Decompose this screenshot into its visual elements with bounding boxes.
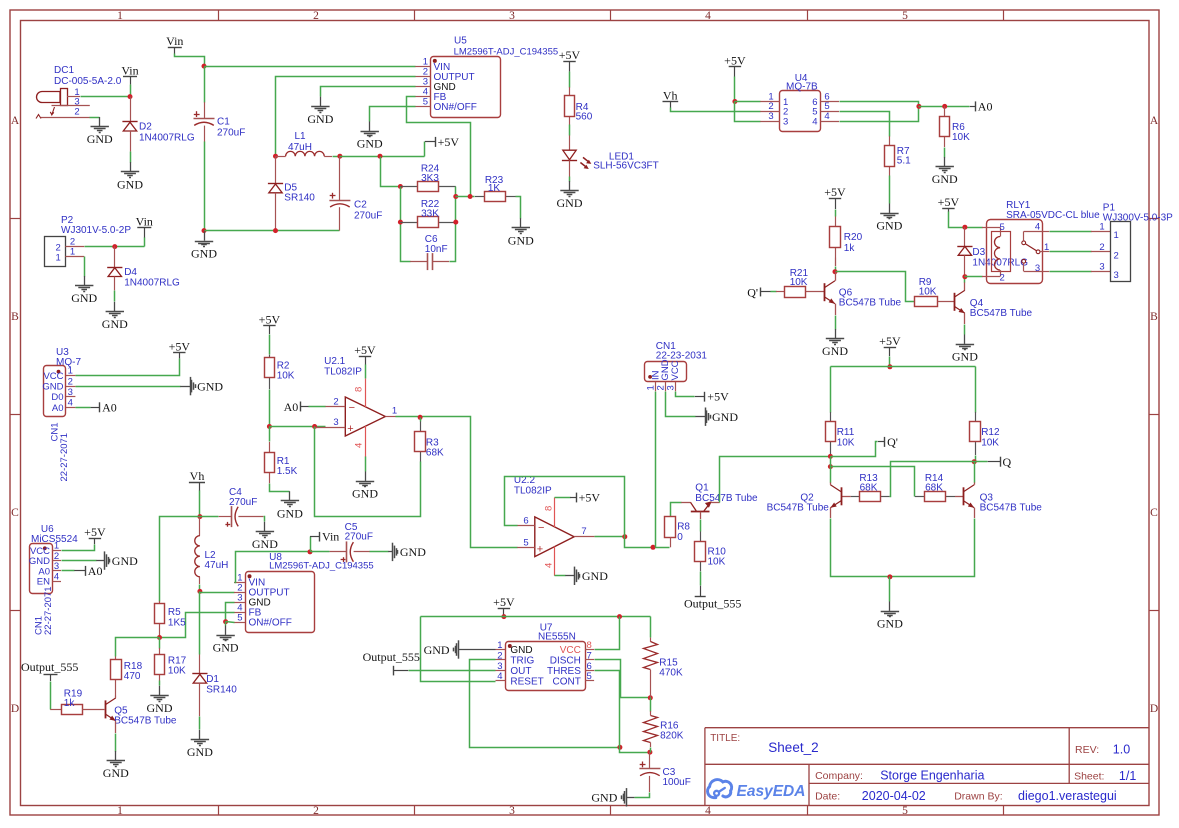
wire U2.2 feedback loop <box>505 477 625 537</box>
junction +5V U7 <box>501 614 506 619</box>
wire TRIG node to C3 node <box>620 748 650 753</box>
wire U5 pin4 FB down to R23 node <box>407 97 471 197</box>
diode D1 <box>199 655 201 674</box>
wire U8 pin3 GND <box>226 603 235 622</box>
junction L2 bottom <box>197 589 202 594</box>
svg-text:2: 2 <box>1114 250 1119 261</box>
ground flag at U2.2 pin4 <box>555 575 566 577</box>
connector P1 <box>1111 222 1131 282</box>
svg-text:CONT: CONT <box>553 676 581 687</box>
wire U4 pin5 to R7 <box>840 112 890 137</box>
net flag A0 at U3 <box>91 407 100 409</box>
power flag +5V at U4 <box>729 66 741 68</box>
wire U4 pin3 to +5V <box>735 102 761 122</box>
svg-text:A: A <box>1150 115 1159 127</box>
svg-text:Sheet_2: Sheet_2 <box>768 740 818 755</box>
svg-text:10K: 10K <box>952 132 970 143</box>
svg-text:3: 3 <box>1035 263 1040 274</box>
svg-text:GND: GND <box>102 317 128 331</box>
resistor R4 <box>569 72 571 88</box>
svg-text:+5V: +5V <box>354 343 376 357</box>
resistor R20 <box>835 210 837 217</box>
svg-text:+5V: +5V <box>438 135 460 149</box>
power flag +5V above R20 <box>829 198 841 200</box>
junction D3 bottom <box>962 274 967 279</box>
wire R6 to ground <box>944 148 946 158</box>
inductor L1 <box>276 156 286 158</box>
svg-text:GND: GND <box>87 132 113 146</box>
svg-text:GND: GND <box>187 745 213 759</box>
svg-text:SLH-56VC3FT: SLH-56VC3FT <box>593 160 659 171</box>
svg-text:10K: 10K <box>981 438 999 449</box>
IC U7 NE555N <box>506 642 586 691</box>
junction D5 bottom <box>273 228 278 233</box>
wire LED1 to ground <box>569 177 571 182</box>
svg-text:68K: 68K <box>860 483 878 494</box>
inductor L2 <box>199 517 201 536</box>
ground at C4 <box>264 522 266 531</box>
wire Q5 collector to R18 <box>115 696 117 698</box>
svg-text:3: 3 <box>333 417 338 428</box>
svg-text:GND: GND <box>952 350 978 364</box>
svg-text:1: 1 <box>497 640 502 651</box>
wire +5V to relay pin5 <box>949 212 983 228</box>
wire CN1 pin3 to +5V <box>676 392 695 397</box>
wire Q' to R21 <box>771 291 777 293</box>
wire A0 node to flag <box>919 106 970 108</box>
svg-text:5: 5 <box>237 613 242 624</box>
svg-text:D3: D3 <box>972 247 985 258</box>
svg-text:WJ300V-5.0-3P: WJ300V-5.0-3P <box>1103 213 1173 224</box>
svg-text:3: 3 <box>68 387 73 398</box>
svg-text:4: 4 <box>824 111 829 122</box>
svg-text:C: C <box>11 507 19 519</box>
resistor R5 <box>159 601 161 603</box>
wire U5 pin5 ON/OFF to ground <box>370 107 416 122</box>
junction R24 left <box>398 184 403 189</box>
svg-text:A0: A0 <box>52 403 64 414</box>
ground flag at U3 pin2 <box>180 386 190 388</box>
led LED1 <box>569 135 571 150</box>
svg-text:TITLE:: TITLE: <box>710 733 740 744</box>
svg-text:R8: R8 <box>677 522 690 533</box>
svg-text:+5V: +5V <box>824 185 846 199</box>
IC U6 MiCS5524 <box>30 544 53 594</box>
svg-text:1: 1 <box>1114 230 1119 241</box>
svg-text:LM2596T-ADJ_C194355: LM2596T-ADJ_C194355 <box>454 47 559 58</box>
svg-text:47uH: 47uH <box>288 142 312 153</box>
transistor Q1 rotated <box>691 511 710 513</box>
svg-text:U2.1: U2.1 <box>324 356 346 367</box>
ground at U5 pin5 <box>369 122 371 131</box>
svg-text:270uF: 270uF <box>345 532 373 543</box>
wire R1 to ground <box>270 484 290 492</box>
junction R23 branch <box>453 194 458 199</box>
svg-text:GND: GND <box>591 791 617 805</box>
wire A0 to pin2 <box>309 406 326 408</box>
svg-text:Vin: Vin <box>136 215 153 229</box>
junction bottom rail gnd <box>887 574 892 579</box>
svg-text:A0: A0 <box>88 564 103 578</box>
svg-text:4: 4 <box>497 671 502 682</box>
net flag A0 top right <box>970 106 976 108</box>
wire P2 pin1 to ground <box>84 257 86 277</box>
svg-text:2: 2 <box>1000 273 1005 284</box>
svg-text:8: 8 <box>544 506 555 511</box>
net flag Vin at DC1 <box>123 76 137 78</box>
svg-text:L1: L1 <box>294 131 306 142</box>
svg-text:Q1: Q1 <box>695 483 709 494</box>
svg-text:Company:: Company: <box>815 770 863 782</box>
svg-text:1N4007RLG: 1N4007RLG <box>139 133 195 144</box>
wire Q2 node to R14 <box>831 467 915 497</box>
svg-text:VCC: VCC <box>560 645 581 656</box>
svg-text:GND: GND <box>400 545 426 559</box>
wire U2.1 output to R3 and U2.2 <box>396 417 518 548</box>
wire TRIG pin2 loop <box>470 660 620 748</box>
ground flag at U6 pin2 <box>96 560 105 562</box>
svg-text:RESET: RESET <box>510 676 543 687</box>
svg-text:WJ301V-5.0-2P: WJ301V-5.0-2P <box>61 225 131 236</box>
pin 1 of U2.1 <box>385 416 396 418</box>
junction FB vertical <box>468 194 473 199</box>
diode D4 <box>114 247 116 268</box>
pin 2 of P2 <box>65 246 84 248</box>
svg-text:2: 2 <box>313 805 319 817</box>
net flag Vin at P2 <box>137 227 151 229</box>
svg-text:ON#/OFF: ON#/OFF <box>434 102 477 113</box>
svg-text:NE555N: NE555N <box>538 632 576 643</box>
svg-text:R5: R5 <box>168 607 181 618</box>
junction FB node R5 <box>157 635 162 640</box>
ground flag at U7 pin1 <box>459 649 496 651</box>
bottom rail wire <box>205 230 340 232</box>
wire U8 pin1 VIN riser <box>235 552 311 583</box>
wire Q node to R13 <box>890 462 975 497</box>
junction U4 pin1 <box>732 99 737 104</box>
junction Q6 collector <box>833 269 838 274</box>
resistor R15 zigzag <box>650 617 652 638</box>
svg-text:5: 5 <box>423 97 428 108</box>
svg-text:8: 8 <box>354 387 365 392</box>
wire C4 to ground <box>264 517 265 522</box>
junction R3 top <box>418 415 423 420</box>
svg-text:D: D <box>1150 703 1158 715</box>
svg-text:Output_555: Output_555 <box>21 660 78 674</box>
ground below R17 <box>159 686 161 695</box>
svg-text:+5V: +5V <box>938 195 960 209</box>
wire U5 pin2 OUTPUT to L1 <box>276 77 416 157</box>
svg-text:GND: GND <box>352 487 378 501</box>
wire +5V to U4 pin1 <box>734 77 736 102</box>
wire C3 to ground flag <box>635 793 650 798</box>
wire R3 bottom loop to +input <box>315 427 421 517</box>
svg-text:Q: Q <box>1003 455 1012 469</box>
svg-text:C: C <box>1150 507 1158 519</box>
svg-text:1N4007RLG: 1N4007RLG <box>124 278 180 289</box>
svg-text:2: 2 <box>313 10 319 22</box>
wire rail to R12 <box>975 367 977 413</box>
wire R20 to Q6 collector <box>835 258 837 267</box>
svg-text:GND: GND <box>197 379 223 393</box>
capacitor C5 <box>311 551 330 553</box>
svg-text:1: 1 <box>68 366 73 377</box>
pin 4 of U2.2 <box>554 547 556 576</box>
wire Vin rail to U5 pin1 <box>205 66 416 68</box>
svg-text:2: 2 <box>333 397 338 408</box>
svg-text:820K: 820K <box>660 730 684 741</box>
ground below flip-flop <box>889 602 891 611</box>
svg-text:4: 4 <box>1035 222 1040 233</box>
wire U4 pin4 to A0 node <box>840 107 919 122</box>
junction U2.2 output <box>622 534 627 539</box>
power flag +5V at U7 <box>498 608 510 610</box>
wire U8 pin2 OUTPUT <box>200 592 235 593</box>
svg-text:+5V: +5V <box>879 334 901 348</box>
svg-text:4: 4 <box>705 10 711 22</box>
svg-text:DC1: DC1 <box>54 65 74 76</box>
svg-text:BC547B Tube: BC547B Tube <box>970 308 1033 319</box>
svg-text:1k: 1k <box>844 243 856 254</box>
junction D5 top <box>273 154 278 159</box>
wire R12 bottom <box>975 456 977 462</box>
junction R11 bottom Q' node <box>828 454 833 459</box>
svg-text:3: 3 <box>666 385 677 390</box>
junction Q node <box>972 459 977 464</box>
svg-text:LM2596T-ADJ_C194355: LM2596T-ADJ_C194355 <box>269 560 374 571</box>
svg-text:C2: C2 <box>354 200 367 211</box>
wire Q1 base down to R10 <box>700 512 702 519</box>
svg-text:Storge Engenharia: Storge Engenharia <box>880 768 984 782</box>
wire CN1 pin1 down to output net <box>655 392 657 548</box>
svg-text:3: 3 <box>1114 270 1119 281</box>
pin 8 of U2.2 <box>554 498 556 528</box>
wire R23 node <box>456 196 475 198</box>
ground below Q6 <box>835 329 837 338</box>
svg-text:GND: GND <box>582 569 608 583</box>
wire U3 pin2 to GND flag <box>76 386 181 388</box>
wire Vin flag to C1 node <box>175 54 205 67</box>
svg-text:BC547B Tube: BC547B Tube <box>980 503 1043 514</box>
wire THRES pin6 <box>595 671 620 748</box>
svg-text:2020-04-02: 2020-04-02 <box>862 789 926 803</box>
resistor R10 <box>700 532 702 542</box>
svg-text:10K: 10K <box>277 371 295 382</box>
svg-text:SRA-05VDC-CL blue: SRA-05VDC-CL blue <box>1006 210 1100 221</box>
svg-text:R12: R12 <box>981 427 1000 438</box>
svg-text:+: + <box>537 543 543 555</box>
IC U4 MQ-7B <box>780 91 821 132</box>
wire Vh node to R5 riser <box>160 517 200 602</box>
power flag +5V flip-flop <box>884 347 896 349</box>
junction R16/C3 <box>647 750 652 755</box>
wire Output_555 to R19 <box>50 682 52 710</box>
IC U3 MQ-7 <box>44 366 66 417</box>
svg-text:6: 6 <box>523 515 528 526</box>
wire Vh to junction <box>199 491 201 517</box>
svg-text:−: − <box>349 402 355 414</box>
svg-text:GND: GND <box>112 554 138 568</box>
ground at P2 pin1 <box>84 276 86 285</box>
svg-text:Vh: Vh <box>663 88 678 102</box>
junction CN1 pin1 wire <box>651 545 656 550</box>
wire U4 pin6 to A0 node <box>840 102 919 107</box>
wire +5V to rail <box>889 357 891 367</box>
svg-text:C1: C1 <box>217 117 230 128</box>
wire U5 pin3 GND <box>321 87 416 97</box>
svg-text:1: 1 <box>392 406 397 417</box>
svg-text:GND: GND <box>508 233 534 247</box>
svg-text:BC547B Tube: BC547B Tube <box>695 493 758 504</box>
svg-text:B: B <box>11 311 19 323</box>
svg-text:7: 7 <box>587 650 592 661</box>
power flag +5V at CN1 <box>695 396 705 398</box>
svg-text:GND: GND <box>252 537 278 551</box>
svg-text:2: 2 <box>68 376 73 387</box>
wire right rail R24-R22-C6 <box>450 187 456 262</box>
wire Q3 emitter down <box>974 508 976 518</box>
junction R2/R1 <box>267 424 272 429</box>
wire P2 pin2 to D4 node <box>85 246 145 248</box>
resistor R8 <box>671 503 682 517</box>
svg-text:−: − <box>538 522 544 534</box>
svg-text:4: 4 <box>812 117 817 128</box>
power flag +5V at U3 <box>173 352 185 354</box>
wire D2 to ground <box>130 152 132 163</box>
svg-text:470K: 470K <box>659 667 683 678</box>
transistor Q3 <box>955 496 964 498</box>
resistor R6 <box>944 106 946 116</box>
svg-text:4: 4 <box>354 443 365 448</box>
ground below R1 <box>289 491 291 500</box>
svg-text:ON#/OFF: ON#/OFF <box>249 618 292 629</box>
svg-text:GND: GND <box>277 506 303 520</box>
svg-text:47uH: 47uH <box>205 560 229 571</box>
svg-text:68K: 68K <box>426 448 444 459</box>
svg-text:Q': Q' <box>747 286 758 300</box>
wire R2 to +input node <box>269 390 271 427</box>
svg-text:Output_555: Output_555 <box>363 650 420 664</box>
wire pin1 DC1 to Vin node <box>81 96 131 98</box>
svg-text:MQ-7B: MQ-7B <box>786 82 818 93</box>
svg-text:4: 4 <box>705 805 711 817</box>
ground below C1 <box>204 231 206 240</box>
svg-text:3: 3 <box>783 117 788 128</box>
resistor R22 <box>400 222 417 224</box>
svg-text:TL082IP: TL082IP <box>324 367 362 378</box>
svg-text:GND: GND <box>357 137 383 151</box>
svg-text:+: + <box>347 423 353 435</box>
svg-text:EasyEDA: EasyEDA <box>737 783 806 800</box>
svg-text:+5V: +5V <box>559 48 581 62</box>
svg-text:Vin: Vin <box>322 530 339 544</box>
wire FB node to R18 <box>116 638 160 657</box>
capacitor C6 <box>410 261 427 263</box>
wire Q' flag branch <box>831 442 878 457</box>
svg-text:10K: 10K <box>168 666 186 677</box>
power flag +5V at U2.2 <box>555 497 571 499</box>
pin 3 of U2.1 <box>315 427 346 429</box>
svg-text:GND: GND <box>307 112 333 126</box>
net flag Vh at C4 <box>189 482 205 484</box>
svg-text:DC-005-5A-2.0: DC-005-5A-2.0 <box>54 76 122 87</box>
net flag Vh at U4 <box>663 101 679 103</box>
resistor R18 <box>115 657 117 660</box>
junction DC1/Vin/D2 <box>128 94 133 99</box>
wire U6 pin1 to +5V <box>62 545 95 551</box>
ground below U8 <box>225 622 227 626</box>
junction FB sense <box>378 154 383 159</box>
wire DISCH pin7 <box>595 660 651 698</box>
svg-text:Sheet:: Sheet: <box>1074 771 1104 783</box>
pin 7 of U2.2 <box>574 536 594 538</box>
junction D3 top <box>962 225 967 230</box>
wire relay pin1 to P1 pin2 <box>1042 251 1049 253</box>
capacitor C2 <box>339 156 341 200</box>
net flag Q' flip-flop <box>878 441 885 443</box>
wire Vh to U4 pin2 <box>671 108 761 112</box>
svg-text:4: 4 <box>544 563 555 568</box>
pin 3 of DC1 <box>52 105 90 107</box>
resistor R23 <box>475 196 485 198</box>
svg-text:5: 5 <box>523 537 528 548</box>
wire L2 to D1/U8pin2 node <box>199 585 201 592</box>
junction A0 node <box>916 104 921 109</box>
ground below U2.1 <box>365 472 367 481</box>
svg-text:THRES: THRES <box>547 666 581 677</box>
resistor R7 <box>889 136 891 145</box>
svg-text:D0: D0 <box>51 392 63 403</box>
ground at R23 <box>520 218 522 227</box>
resistor R2 <box>269 335 271 355</box>
wire +input node <box>270 426 326 428</box>
svg-text:3: 3 <box>768 111 773 122</box>
wire C2 node to +5V riser <box>340 156 425 158</box>
junction Vh node <box>197 514 202 519</box>
svg-text:D2: D2 <box>139 122 152 133</box>
ground flag at C3 <box>626 797 634 799</box>
wire U8 pin4 FB <box>160 613 235 638</box>
svg-text:D1: D1 <box>206 674 219 685</box>
wire C5 to GND flag <box>370 551 389 553</box>
wire Q3 collector <box>974 482 976 485</box>
svg-text:4: 4 <box>68 398 73 409</box>
svg-text:GND: GND <box>71 291 97 305</box>
junction R22 right <box>453 220 458 225</box>
net flag Vin at C5 <box>310 537 312 552</box>
svg-text:1k: 1k <box>64 698 76 709</box>
svg-text:1: 1 <box>70 246 75 257</box>
pin 2 of U2.1 <box>325 406 345 408</box>
net flag Vin top <box>168 47 182 49</box>
ground flag at CN1 pin2 <box>695 416 705 418</box>
transistor Q5 <box>105 700 107 718</box>
net flag +5V at L1 output <box>424 142 426 157</box>
power flag +5V at U6 <box>89 538 101 540</box>
svg-text:3K3: 3K3 <box>421 173 439 184</box>
junction P2/D4 <box>112 244 117 249</box>
svg-text:3: 3 <box>509 10 515 22</box>
svg-text:+5V: +5V <box>724 54 746 68</box>
svg-text:Vin: Vin <box>166 34 183 48</box>
svg-text:BC547B Tube: BC547B Tube <box>767 503 830 514</box>
junction VCC riser <box>617 614 622 619</box>
svg-text:+5V: +5V <box>707 390 729 404</box>
svg-text:2: 2 <box>497 650 502 661</box>
svg-text:GND: GND <box>510 645 532 656</box>
svg-text:1: 1 <box>56 253 61 264</box>
svg-text:3: 3 <box>497 661 502 672</box>
